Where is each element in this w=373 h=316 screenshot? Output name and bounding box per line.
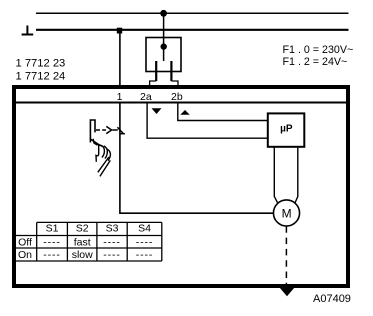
wire: supply line L2 — [36, 29, 349, 31]
svg-text:1 7712 24: 1 7712 24 — [16, 70, 66, 82]
svg-text:----: ---- — [136, 249, 153, 261]
svg-text:1: 1 — [117, 91, 123, 103]
node inside F1 — [161, 43, 167, 49]
svg-text:----: ---- — [103, 236, 120, 248]
DIP switch table — [15, 222, 162, 261]
pin to 2a — [155, 61, 157, 81]
wire: supply line L1 (top) — [36, 12, 349, 14]
op-amp/microprocessor U1 — [268, 113, 305, 146]
svg-text:F1 . 2 = 24V~: F1 . 2 = 24V~ — [283, 56, 348, 68]
svg-text:----: ---- — [43, 249, 60, 261]
svg-text:S4: S4 — [138, 223, 151, 235]
dashed actuation arrow — [96, 129, 118, 131]
arrow down (input 2a) — [152, 108, 162, 114]
svg-text:----: ---- — [43, 236, 60, 248]
svg-text:S2: S2 — [76, 223, 89, 235]
node on L2 — [117, 28, 122, 34]
terminal strip line — [12, 102, 350, 104]
pin step 2b — [171, 81, 178, 86]
connector box F1 — [146, 38, 181, 72]
dashed output wire — [285, 226, 287, 287]
svg-text:S1: S1 — [46, 223, 59, 235]
svg-text:1 7712 23: 1 7712 23 — [16, 58, 66, 70]
wire: terminal 1 to motor — [120, 104, 274, 214]
svg-text:On: On — [18, 249, 32, 261]
pin step 2a — [150, 81, 157, 86]
wire: L2 node down to terminal 1 — [119, 30, 121, 85]
switch actuation point X — [117, 127, 123, 133]
wire: from L1 node down into connector F1 — [163, 13, 165, 61]
hand (manual actuation) — [90, 120, 110, 176]
svg-text:slow: slow — [72, 249, 93, 261]
svg-text:----: ---- — [136, 236, 153, 248]
shaft left — [274, 147, 278, 204]
output arrow — [280, 288, 295, 297]
node on L1 — [160, 10, 167, 17]
svg-text:Off: Off — [18, 237, 32, 249]
arrow up (output 2b) — [180, 110, 189, 115]
svg-text:S3: S3 — [106, 223, 119, 235]
ground symbol — [22, 26, 34, 35]
wire: terminal 2b to uP — [178, 104, 267, 121]
svg-text:----: ---- — [103, 249, 120, 261]
control unit box — [14, 87, 348, 286]
pin to 2b — [170, 61, 172, 81]
svg-text:fast: fast — [74, 236, 91, 248]
svg-text:µP: µP — [280, 124, 293, 135]
svg-text:2b: 2b — [171, 91, 183, 103]
arrowhead — [106, 126, 111, 133]
svg-text:M: M — [282, 207, 292, 221]
wire: terminal 2a to uP — [147, 104, 267, 139]
shaft right — [295, 147, 298, 203]
svg-text:F1 . 0 = 230V~: F1 . 0 = 230V~ — [283, 44, 354, 56]
svg-text:2a: 2a — [140, 91, 152, 103]
motor M — [273, 200, 299, 226]
svg-text:A07409: A07409 — [313, 293, 351, 305]
